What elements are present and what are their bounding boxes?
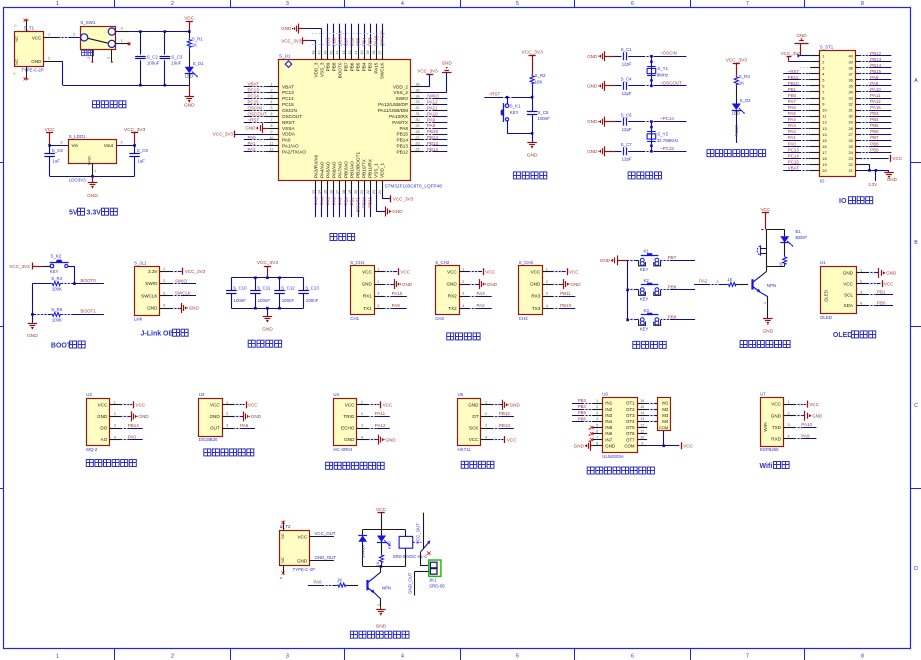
- svg-text:VCC: VCC: [98, 402, 108, 407]
- svg-text:NC: NC: [14, 36, 19, 42]
- svg-text:PB14: PB14: [128, 423, 140, 428]
- svg-text:GND: GND: [297, 558, 308, 563]
- svg-text:VCC_3V3: VCC_3V3: [281, 38, 302, 43]
- svg-text:37: 37: [848, 71, 852, 76]
- svg-text:B1: B1: [795, 229, 801, 234]
- svg-text:S_C7: S_C7: [621, 142, 633, 147]
- svg-text:K3: K3: [644, 308, 650, 313]
- svg-text:TRIG: TRIG: [343, 414, 354, 419]
- svg-text:43: 43: [342, 51, 346, 55]
- wire LED branch top: [381, 530, 383, 536]
- svg-text:7: 7: [746, 654, 749, 660]
- svg-text:1: 1: [56, 1, 59, 7]
- svg-text:1: 1: [226, 401, 228, 405]
- ground of alarm: [762, 318, 773, 334]
- svg-text:PA8: PA8: [427, 123, 436, 128]
- svg-text:VSS_2: VSS_2: [393, 90, 408, 95]
- ground of BOOT circuit: [27, 314, 38, 339]
- U3 pin stubs: [222, 401, 234, 429]
- svg-text:PB11: PB11: [368, 197, 373, 208]
- svg-text:KEY: KEY: [640, 267, 649, 272]
- svg-text:KEY: KEY: [50, 269, 59, 274]
- wire U6 COM to VCC: [647, 442, 693, 449]
- svg-text:22: 22: [366, 190, 370, 194]
- svg-text:1K: 1K: [727, 277, 732, 282]
- svg-text:VCC_3V3: VCC_3V3: [257, 260, 279, 266]
- svg-text:GND: GND: [843, 271, 854, 276]
- svg-text:28: 28: [416, 130, 420, 134]
- junction key/C5 bottom: [531, 132, 534, 135]
- svg-text:RX1: RX1: [363, 294, 372, 299]
- svg-text:VCC_3V3: VCC_3V3: [726, 58, 748, 64]
- svg-text:1uF: 1uF: [52, 158, 60, 163]
- svg-text:VCC: VCC: [771, 402, 781, 407]
- no-connect U6 IN7: [589, 438, 594, 442]
- wire T1 VCC to SW1 pin2: [44, 33, 80, 38]
- svg-text:4: 4: [114, 435, 116, 439]
- svg-text:PA10/RX: PA10/RX: [389, 114, 409, 119]
- net PA10 wire (U7): [795, 422, 816, 427]
- svg-text:SCK: SCK: [469, 426, 479, 431]
- svg-text:11: 11: [640, 429, 644, 433]
- svg-text:PC15: PC15: [282, 102, 294, 107]
- svg-text:7: 7: [271, 118, 273, 122]
- svg-text:PB12: PB12: [499, 411, 511, 416]
- svg-text:S_C2: S_C2: [147, 54, 159, 59]
- svg-text:2: 2: [120, 141, 122, 145]
- svg-text:19: 19: [348, 190, 352, 194]
- svg-text:PA3/RX/A0: PA3/RX/A0: [313, 154, 318, 178]
- svg-text:PA8: PA8: [399, 126, 408, 131]
- svg-text:100uF: 100uF: [147, 61, 160, 66]
- svg-text:8: 8: [861, 654, 864, 660]
- svg-text:9: 9: [271, 130, 273, 134]
- module U3 DS18B20: [199, 392, 223, 442]
- svg-text:2: 2: [226, 412, 228, 416]
- svg-text:11: 11: [270, 142, 274, 146]
- title 串口电路: [447, 333, 480, 340]
- resistor relay base 1K: [337, 578, 346, 588]
- title 主芯片: [330, 234, 355, 241]
- svg-text:10: 10: [270, 136, 274, 140]
- svg-text:NC: NC: [280, 533, 285, 539]
- resistor S_R3 1K: [734, 74, 750, 86]
- wire to K3: [628, 319, 639, 321]
- svg-text:12: 12: [270, 148, 274, 152]
- svg-text:GND: GND: [376, 623, 387, 629]
- gnd rail wire: [63, 85, 190, 87]
- svg-text:3: 3: [226, 424, 228, 428]
- svg-text:S_C12: S_C12: [281, 285, 295, 290]
- svg-text:27: 27: [848, 132, 852, 137]
- svg-text:VCC: VCC: [507, 437, 517, 442]
- svg-text:GND: GND: [527, 153, 538, 159]
- title 滤波电路: [248, 340, 281, 347]
- title 按键电路: [633, 341, 666, 348]
- svg-text:PA10: PA10: [392, 291, 403, 296]
- svg-text:14: 14: [640, 411, 644, 415]
- svg-text:PA9: PA9: [801, 434, 810, 439]
- svg-text:2: 2: [361, 412, 363, 416]
- wire to K1: [628, 260, 639, 262]
- svg-text:1: 1: [163, 267, 165, 271]
- ground at CH2: [470, 279, 498, 289]
- svg-text:M1: M1: [662, 401, 669, 406]
- svg-text:12: 12: [822, 120, 826, 125]
- svg-text:OSCIN: OSCIN: [248, 105, 262, 110]
- svg-text:JK1: JK1: [429, 578, 437, 583]
- svg-text:VCC: VCC: [469, 437, 479, 442]
- svg-text:S_R3: S_R3: [739, 74, 751, 79]
- svg-text:PB12: PB12: [870, 51, 881, 56]
- buzzer B1 BEEP: [757, 245, 766, 255]
- junction Vin/C8: [48, 144, 51, 147]
- title 晶振电路: [628, 172, 661, 179]
- svg-text:6: 6: [631, 654, 634, 660]
- svg-text:PB7: PB7: [344, 62, 349, 71]
- wire to K2: [628, 289, 639, 291]
- ground of reset circuit: [527, 142, 538, 159]
- power VCC_3V3 at U1 VDD_2: [417, 68, 438, 86]
- svg-text:S_C5: S_C5: [538, 110, 550, 115]
- svg-text:17: 17: [336, 190, 340, 194]
- svg-text:2: 2: [787, 411, 789, 415]
- no-connect stub bottom of S_T1: [13, 67, 29, 80]
- power port VCC_3V3 (filter): [257, 260, 279, 278]
- svg-text:~PC14: ~PC14: [660, 116, 674, 121]
- svg-text:PA11: PA11: [870, 93, 881, 98]
- switch S_SW1 (开关): [80, 20, 115, 56]
- svg-text:VBAT: VBAT: [282, 84, 294, 89]
- wire C9 to gnd rail: [134, 145, 136, 176]
- wire BOOT0 net: [32, 278, 104, 284]
- svg-text:PB6: PB6: [350, 62, 355, 71]
- U1 right net label wires: [423, 94, 447, 152]
- svg-text:PB13: PB13: [427, 141, 439, 146]
- alarm bottom rail: [766, 266, 784, 268]
- svg-text:AO: AO: [101, 437, 108, 442]
- svg-text:OLED: OLED: [833, 332, 852, 339]
- svg-text:S_Y2: S_Y2: [657, 131, 668, 136]
- svg-text:KEY: KEY: [640, 327, 649, 332]
- svg-text:100K: 100K: [52, 287, 62, 292]
- svg-text:SWCLK: SWCLK: [380, 30, 385, 46]
- S_ST1 right net wires: [860, 51, 892, 153]
- ground of power circuit: [184, 85, 195, 108]
- svg-text:GND: GND: [510, 403, 521, 408]
- svg-text:PA0: PA0: [248, 135, 257, 140]
- no-connect stub bottom (relay T2): [280, 565, 284, 579]
- svg-text:PA15: PA15: [870, 105, 881, 110]
- svg-text:15: 15: [822, 138, 826, 143]
- svg-text:U7: U7: [760, 391, 766, 396]
- svg-text:VCC_3V3: VCC_3V3: [393, 197, 414, 202]
- U1 left net label wires: [244, 82, 269, 152]
- svg-text:WIFI: WIFI: [763, 422, 768, 431]
- svg-text:CH3: CH3: [519, 316, 528, 321]
- net PB7 wire: [661, 255, 696, 261]
- svg-text:S_R5: S_R5: [51, 307, 63, 312]
- wire left trunk: [32, 284, 34, 315]
- svg-text:VCC: VCC: [297, 534, 307, 539]
- svg-text:BOOT1: BOOT1: [81, 309, 97, 314]
- svg-text:8MHz: 8MHz: [657, 72, 668, 77]
- svg-text:MQ-2: MQ-2: [86, 447, 98, 452]
- svg-text:IN7: IN7: [605, 437, 612, 442]
- wire coil top: [405, 530, 407, 537]
- svg-text:PA1/AO: PA1/AO: [282, 144, 299, 149]
- svg-text:47: 47: [318, 51, 322, 55]
- svg-text:3: 3: [271, 94, 273, 98]
- svg-text:~RST: ~RST: [788, 69, 800, 74]
- svg-text:PA11/USB/DM: PA11/USB/DM: [378, 108, 408, 113]
- svg-text:~PC15: ~PC15: [660, 146, 674, 151]
- svg-text:15: 15: [324, 190, 328, 194]
- wire D2 to PC13: [734, 110, 739, 143]
- svg-text:100nF: 100nF: [282, 298, 295, 303]
- svg-text:M3: M3: [662, 413, 669, 418]
- svg-text:VCC: VCC: [447, 269, 457, 274]
- svg-text:3: 3: [485, 424, 487, 428]
- wire C5 to gnd: [532, 115, 534, 142]
- emitter wire to gnd: [760, 292, 767, 318]
- svg-text:PC13: PC13: [248, 88, 260, 93]
- ground (S_C1): [587, 51, 614, 61]
- wire motor COM: [663, 431, 666, 447]
- U1 bottom net label wires: [313, 194, 372, 218]
- svg-text:U1: U1: [820, 260, 826, 265]
- junction ~OSCIN/crystal: [650, 55, 653, 58]
- ground at U1 VSS_3: [281, 24, 322, 48]
- ground at CH1: [385, 279, 413, 289]
- power port VCC (relay): [376, 507, 387, 530]
- svg-text:2: 2: [171, 1, 174, 7]
- svg-text:OSCOUT: OSCOUT: [282, 114, 302, 119]
- connector S_CH2: [435, 260, 459, 321]
- wire LED branch top: [784, 230, 786, 237]
- svg-text:VCC: VCC: [485, 269, 495, 274]
- svg-text:U2: U2: [86, 392, 92, 397]
- svg-text:S_C4: S_C4: [621, 77, 633, 82]
- svg-text:7: 7: [822, 90, 824, 95]
- title 复位电路: [513, 172, 546, 179]
- power port VCC_3V3 (boot): [9, 263, 50, 270]
- svg-text:PB14: PB14: [427, 135, 439, 140]
- ground at U1 VSS_2: [423, 61, 452, 93]
- power port VCC_3V3 (reset): [521, 50, 543, 75]
- svg-text:VCC_3V3: VCC_3V3: [9, 264, 30, 269]
- svg-text:PB7: PB7: [870, 135, 879, 140]
- junction BOOT1/gnd: [31, 313, 34, 316]
- svg-text:PC13: PC13: [734, 125, 739, 137]
- svg-text:VBAT: VBAT: [248, 82, 260, 87]
- svg-text:GND: GND: [587, 149, 598, 154]
- emitter wire to gnd (relay): [375, 593, 381, 607]
- svg-text:GND: GND: [281, 26, 292, 31]
- svg-text:2: 2: [87, 57, 91, 59]
- svg-text:BOOT0: BOOT0: [338, 62, 343, 78]
- svg-text:PB5: PB5: [870, 123, 879, 128]
- svg-text:S_CH1: S_CH1: [350, 260, 365, 265]
- svg-text:GND: GND: [886, 271, 897, 276]
- U1 top net label wires: [312, 24, 385, 48]
- svg-text:2: 2: [377, 280, 379, 284]
- svg-text:29: 29: [848, 120, 852, 125]
- wire BOOT1 net: [32, 309, 104, 315]
- capacitor S_C6 12pF: [614, 112, 632, 132]
- svg-text:GND: GND: [530, 282, 541, 287]
- svg-text:GND: GND: [587, 119, 598, 124]
- svg-text:13: 13: [640, 417, 644, 421]
- svg-text:GND: GND: [487, 282, 498, 287]
- button K1 KEY: [639, 249, 661, 273]
- svg-text:SWCLK: SWCLK: [380, 62, 385, 80]
- svg-text:19: 19: [822, 162, 826, 167]
- junction filter top S_C11: [254, 277, 257, 280]
- power VCC at U5: [493, 436, 517, 443]
- svg-text:GND_OUT: GND_OUT: [407, 572, 412, 594]
- svg-text:VCC: VCC: [184, 16, 195, 22]
- terminal JK1 SRD-05: [429, 560, 446, 588]
- svg-text:100nF: 100nF: [306, 298, 319, 303]
- no-connect stub top of S_T1: [14, 19, 29, 32]
- ground at ST1 pin1: [795, 33, 811, 57]
- svg-text:VCC_3V3: VCC_3V3: [185, 269, 206, 274]
- svg-text:DT: DT: [472, 414, 478, 419]
- svg-text:21: 21: [360, 190, 364, 194]
- svg-text:PA10: PA10: [870, 87, 881, 92]
- S_ST1 left net wires: [783, 56, 810, 171]
- ground (S_C4): [587, 81, 614, 91]
- svg-text:46: 46: [324, 51, 328, 55]
- svg-text:PA11: PA11: [427, 105, 438, 110]
- svg-text:12pF: 12pF: [622, 62, 632, 67]
- svg-text:IN4: IN4: [605, 419, 612, 424]
- svg-text:36: 36: [848, 78, 852, 83]
- svg-text:GND_OUT: GND_OUT: [315, 555, 337, 560]
- svg-text:VCC: VCC: [892, 156, 902, 161]
- button K3 KEY: [639, 308, 661, 332]
- svg-text:VDD_2: VDD_2: [393, 84, 409, 89]
- svg-text:K2: K2: [644, 278, 650, 283]
- junction LDO gnd: [91, 175, 94, 178]
- crystal S_Y1 8MHz: [647, 56, 668, 86]
- svg-text:OT3: OT3: [626, 413, 635, 418]
- net PB6 wire (U6): [572, 416, 593, 421]
- svg-text:IN3: IN3: [605, 413, 612, 418]
- ground at U7: [795, 411, 823, 421]
- svg-text:37: 37: [378, 51, 382, 55]
- svg-text:S_D1: S_D1: [193, 61, 205, 66]
- svg-text:VCC: VCC: [569, 269, 579, 274]
- svg-text:SWIO: SWIO: [175, 278, 187, 283]
- wire R2 to node: [532, 85, 534, 98]
- svg-text:1: 1: [56, 654, 59, 660]
- svg-text:3: 3: [787, 423, 789, 427]
- wire LED to resistor: [381, 541, 383, 554]
- wire LDO pin2 Vout: [116, 141, 135, 146]
- ground (S_C6): [587, 117, 614, 127]
- junction relay collector: [380, 565, 383, 568]
- net label ~RST wire: [484, 92, 532, 98]
- net PA8 wire: [308, 579, 358, 585]
- svg-text:U3: U3: [199, 392, 205, 397]
- resistor S_R2 10K: [530, 73, 546, 85]
- svg-text:1: 1: [485, 401, 487, 405]
- wire contact to JK1: [420, 552, 429, 566]
- svg-text:VCC: VCC: [248, 403, 258, 408]
- svg-text:PA0: PA0: [128, 434, 137, 439]
- filter bottom rail: [231, 308, 303, 310]
- svg-text:GND: GND: [251, 414, 262, 419]
- title J-Link OB接口: [141, 329, 189, 337]
- ground at U6: [574, 441, 593, 451]
- svg-text:PB15: PB15: [870, 69, 881, 74]
- svg-text:S_R1: S_R1: [192, 36, 204, 41]
- svg-text:GND: GND: [392, 209, 403, 214]
- ground at U4: [369, 435, 397, 445]
- svg-text:Vin: Vin: [72, 143, 79, 148]
- svg-text:PB2/BOOT1: PB2/BOOT1: [356, 152, 361, 178]
- svg-text:32: 32: [848, 102, 852, 107]
- driver U6 ULN2003A: [602, 392, 637, 459]
- svg-text:PA15: PA15: [374, 62, 379, 74]
- net PB3 wire (U6): [572, 398, 593, 404]
- junction R1/VCC: [188, 30, 191, 33]
- wire coil bottom: [405, 548, 407, 566]
- resistor S_R4 100K: [51, 276, 63, 292]
- button S_K1 KEY: [501, 103, 521, 122]
- module U5 HX711: [458, 392, 481, 452]
- svg-text:S_Y1: S_Y1: [657, 66, 668, 71]
- svg-text:VCC: VCC: [383, 403, 393, 408]
- title 温度检测模块: [204, 449, 254, 456]
- svg-text:16: 16: [330, 190, 334, 194]
- power VCC at U4: [369, 401, 393, 408]
- svg-text:PB0: PB0: [788, 93, 797, 98]
- alarm top rail: [761, 230, 784, 249]
- title 四相五线步进电机: [587, 467, 654, 474]
- power VCC at CH3: [553, 268, 579, 275]
- capacitor S_C3 10uF: [160, 54, 183, 65]
- svg-text:GND: GND: [97, 414, 108, 419]
- svg-text:26: 26: [416, 142, 420, 146]
- svg-text:SCL: SCL: [844, 292, 853, 297]
- net PB11 wire: [553, 291, 575, 297]
- svg-text:2: 2: [546, 280, 548, 284]
- svg-text:36: 36: [416, 82, 420, 86]
- svg-text:3.3V: 3.3V: [868, 182, 877, 187]
- svg-text:OT2: OT2: [626, 407, 635, 412]
- svg-text:SRD-05VDC-SL-C: SRD-05VDC-SL-C: [393, 554, 428, 559]
- svg-text:PC14: PC14: [282, 96, 294, 101]
- svg-text:PA8: PA8: [870, 75, 879, 80]
- svg-text:~RST: ~RST: [248, 117, 260, 122]
- svg-text:CH1: CH1: [350, 316, 359, 321]
- title OLED显示屏: [833, 331, 876, 339]
- svg-text:10: 10: [640, 436, 644, 440]
- svg-text:BOOT0: BOOT0: [81, 278, 97, 283]
- net PB9 wire: [661, 315, 696, 320]
- title 5V转3.3V电路: [69, 208, 117, 216]
- svg-text:SDA: SDA: [844, 303, 854, 308]
- svg-text:PB15: PB15: [427, 129, 439, 134]
- ground at JL1: [172, 303, 199, 313]
- svg-text:PB9: PB9: [668, 315, 677, 320]
- svg-text:3: 3: [546, 292, 548, 296]
- svg-text:6: 6: [631, 1, 634, 7]
- svg-text:B: B: [914, 240, 918, 246]
